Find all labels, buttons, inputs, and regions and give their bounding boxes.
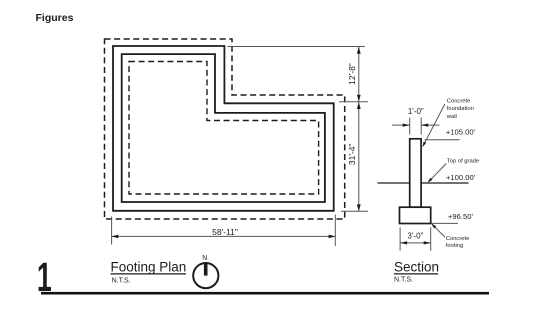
right dimension extension line middle <box>339 101 368 103</box>
svg-text:Figures: Figures <box>36 12 74 24</box>
section dimension 1'-0" left arrow line <box>392 124 410 126</box>
svg-text:N.T.S.: N.T.S. <box>112 277 131 284</box>
section dimension 3'-0" extension left <box>399 227 401 250</box>
svg-text:12'-8": 12'-8" <box>347 63 357 85</box>
svg-text:foundation: foundation <box>447 106 474 112</box>
bottom dimension arrow right <box>329 235 336 239</box>
section: concrete foundation wall <box>410 139 421 207</box>
svg-text:Footing Plan: Footing Plan <box>111 259 187 274</box>
right dimension extension line bottom <box>341 210 368 212</box>
north arrow bar <box>204 263 208 276</box>
svg-text:+105.00': +105.00' <box>446 127 476 136</box>
bottom rule <box>41 292 489 295</box>
section: grade line left segment <box>378 182 410 184</box>
svg-text:Concrete: Concrete <box>447 99 471 105</box>
section dimension 1'-0" extension right <box>420 118 422 135</box>
svg-text:+100.00': +100.00' <box>446 173 476 182</box>
svg-text:58'-11": 58'-11" <box>212 227 238 237</box>
datum line at +96.50 <box>432 222 459 224</box>
svg-text:+96.50': +96.50' <box>448 212 473 221</box>
section dimension 3'-0" extension right <box>430 227 432 250</box>
right dimension arrow bottom (down) <box>357 204 361 211</box>
foundation wall outer face (solid) <box>113 46 334 211</box>
bottom dimension 58'-11" extension line left <box>111 217 113 245</box>
foundation wall inner face (solid) <box>122 54 325 202</box>
bottom dimension 58'-11" extension line right <box>334 215 336 247</box>
footing inner edge (dashed) <box>129 62 319 195</box>
svg-text:Top of grade: Top of grade <box>447 159 479 165</box>
section dimension 3'-0" line <box>400 242 431 244</box>
svg-text:3'-0": 3'-0" <box>407 232 423 241</box>
section: concrete footing <box>400 207 431 223</box>
section: grade line right segment <box>421 182 468 184</box>
leader to grade <box>429 164 447 182</box>
bottom dimension arrow left <box>112 235 119 239</box>
section dimension 1'-0" right arrow line <box>421 124 439 126</box>
svg-text:Concrete: Concrete <box>446 236 470 242</box>
svg-text:wall: wall <box>446 114 457 120</box>
leader to wall <box>423 104 445 146</box>
right dimension arrow mid (up) <box>357 102 361 109</box>
svg-text:1'-0": 1'-0" <box>408 107 424 116</box>
leader to footing corner <box>432 225 445 238</box>
svg-text:Section: Section <box>394 260 439 275</box>
north arrow circle <box>193 263 218 288</box>
svg-text:N.T.S.: N.T.S. <box>394 277 413 284</box>
datum line at +105 <box>425 139 460 141</box>
footing outer edge (dashed) <box>105 39 345 219</box>
svg-text:N: N <box>202 255 207 262</box>
svg-text:31'-4": 31'-4" <box>347 143 357 165</box>
right dimension line <box>358 47 360 212</box>
svg-text:footing: footing <box>446 243 463 249</box>
right dimension arrow mid (down) <box>357 95 361 102</box>
bottom dimension line <box>112 235 336 237</box>
right dimension arrow top (up) <box>357 47 361 54</box>
section dimension 1'-0" extension left <box>409 118 411 135</box>
right dimension extension line top <box>228 46 365 48</box>
